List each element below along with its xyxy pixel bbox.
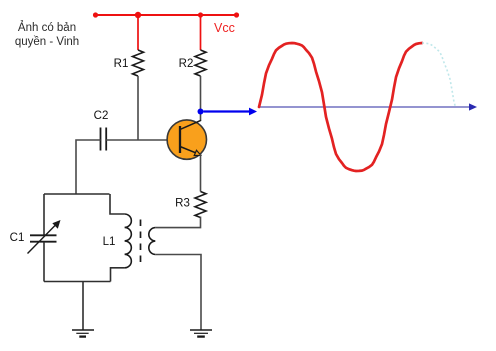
tank left wire lower <box>43 242 45 282</box>
wire tank top to L1 top <box>110 194 125 214</box>
svg-text:L1: L1 <box>103 236 116 248</box>
tank left wire upper (to C1) <box>43 194 45 235</box>
transistor Q1 <box>167 120 206 159</box>
wire tank to ground <box>82 282 84 330</box>
resistor R3 <box>175 192 206 218</box>
output arrow (blue) <box>204 108 258 116</box>
svg-text:C2: C2 <box>94 110 109 122</box>
tank bottom wire <box>44 281 111 283</box>
tank top wire <box>44 193 110 195</box>
capacitor C2 <box>94 110 109 151</box>
svg-text:C1: C1 <box>10 232 25 244</box>
ground symbol left <box>72 330 94 337</box>
resistor R1 <box>114 50 144 76</box>
wire rail to R1 (red) <box>137 15 139 50</box>
node collector output (blue dot) <box>198 109 204 115</box>
wire C2 left to tank top <box>76 140 101 194</box>
wire emitter to R3 <box>200 154 202 192</box>
svg-text:Vcc: Vcc <box>214 21 235 35</box>
rail right endpoint dot <box>234 12 239 17</box>
wire L1 bottom to tank bottom <box>111 268 125 282</box>
transformer secondary winding <box>149 228 155 255</box>
variable capacitor C1 <box>10 220 61 254</box>
wire rail to R2 (red) <box>200 15 202 50</box>
output sine waveform (red) <box>259 43 422 171</box>
junction dot node rail-R2 <box>198 12 203 17</box>
rail left endpoint dot <box>93 12 98 17</box>
svg-text:quyền - Vinh: quyền - Vinh <box>15 36 79 48</box>
wire R2 bottom to collector <box>200 76 202 121</box>
wire R1 bottom to base node <box>137 76 139 140</box>
svg-text:R2: R2 <box>179 58 194 70</box>
resistor R2 <box>179 50 206 76</box>
svg-text:R1: R1 <box>114 58 129 70</box>
wire secondary bottom to ground <box>155 255 201 330</box>
output axis (blue) <box>259 103 477 110</box>
wire C2 to transistor base <box>106 139 180 141</box>
inductor L1 primary winding <box>103 214 132 268</box>
ground symbol right <box>190 330 212 337</box>
svg-text:R3: R3 <box>175 198 190 210</box>
waveform ghost continuation (faint) <box>422 43 456 107</box>
wire R3 bottom to transformer secondary top <box>155 217 200 228</box>
watermark text <box>15 21 79 48</box>
junction dot node rail-R1 <box>135 12 141 18</box>
transformer core (dashed) <box>140 220 142 264</box>
Vcc power rail wire <box>95 14 237 16</box>
svg-text:Ảnh có bản: Ảnh có bản <box>18 21 76 34</box>
